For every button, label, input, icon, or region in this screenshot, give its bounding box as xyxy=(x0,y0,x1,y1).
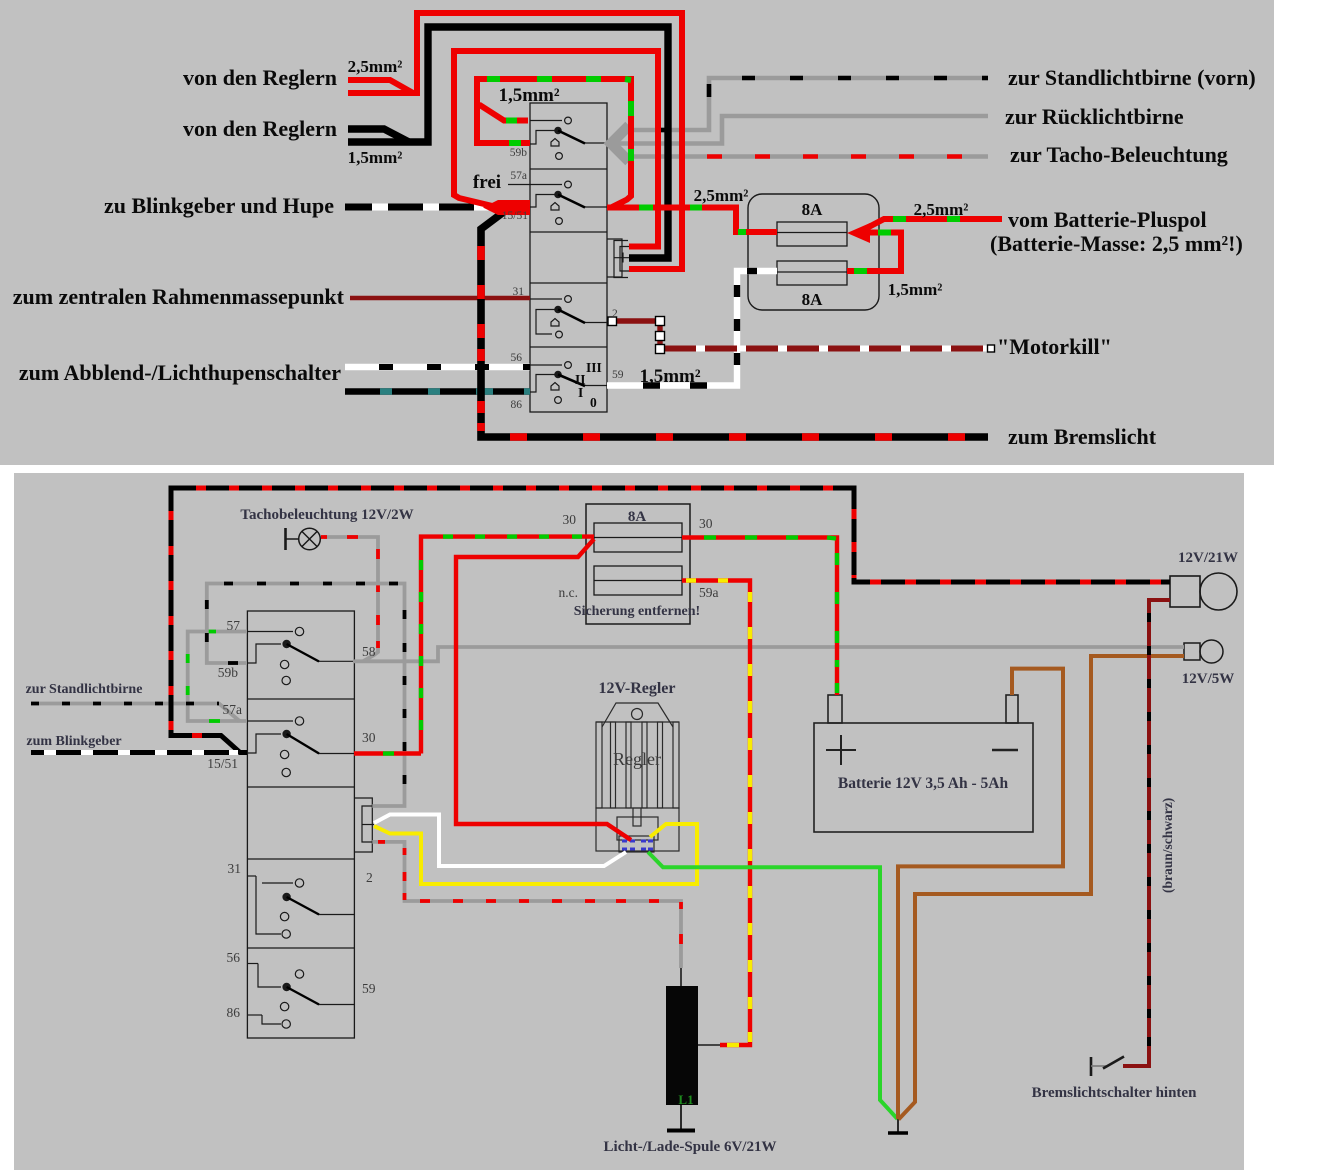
svg-text:86: 86 xyxy=(227,1005,241,1020)
wire red inner loop to connector X1 xyxy=(454,51,658,247)
svg-text:vom Batterie-Pluspol: vom Batterie-Pluspol xyxy=(1008,207,1207,232)
wire white connector X2 to regulator plug xyxy=(374,815,626,867)
terminal number labels S1 xyxy=(502,147,624,411)
wire red fuse F3 to regulator U1 xyxy=(456,539,631,840)
svg-text:Batterie 12V 3,5 Ah - 5Ah: Batterie 12V 3,5 Ah - 5Ah xyxy=(838,775,1009,792)
S1 row2 contacts (terminals 57a / 15-51 / 30) xyxy=(508,181,607,224)
wire gray/green 57 to 57a jumper xyxy=(188,632,247,722)
svg-text:30: 30 xyxy=(563,512,577,527)
fuse box F3/F4 (bottom panel) xyxy=(586,504,690,624)
wire red/yellow fuse F4 (59a) to coil L1 xyxy=(682,581,750,1046)
wire gray/red connector X2 to coil L1 xyxy=(372,842,681,968)
svg-text:zum zentralen Rahmenmassepunkt: zum zentralen Rahmenmassepunkt xyxy=(13,284,345,309)
S2 row1 contacts (57 / 59b / 58) xyxy=(248,627,354,684)
wire dark-red to zentraler Rahmenmassepunkt (terminal 31) xyxy=(350,296,530,301)
svg-text:III: III xyxy=(586,360,602,375)
wire red 2,5mm2 from Reglern xyxy=(348,80,413,93)
svg-text:2,5mm²: 2,5mm² xyxy=(348,57,403,76)
fuse F1 8A xyxy=(777,222,847,246)
svg-text:8A: 8A xyxy=(628,509,647,525)
svg-text:12V/21W: 12V/21W xyxy=(1178,550,1238,566)
S1 row1 contacts (terminals 57 / 59b / 58) xyxy=(530,117,607,159)
svg-text:zur Standlichtbirne (vorn): zur Standlichtbirne (vorn) xyxy=(1008,65,1256,90)
svg-text:von den Reglern: von den Reglern xyxy=(183,65,337,90)
S2 row5 contacts (56 / 86 / 59) xyxy=(248,964,354,1029)
svg-text:58: 58 xyxy=(362,644,376,659)
svg-text:8A: 8A xyxy=(802,290,824,309)
ground symbol under L1 xyxy=(680,1105,682,1130)
svg-text:56: 56 xyxy=(227,950,241,965)
wire gray/red tacho lamp to 58 xyxy=(324,537,378,661)
S2 row2 contacts (57a / 15-51 / 30) xyxy=(248,717,354,777)
wire gray to Standlichtbirne (terminal 58, black dashes) xyxy=(622,78,988,130)
wire red/green 30 riser to fuse F3 xyxy=(421,537,594,754)
svg-text:56: 56 xyxy=(511,352,523,364)
wire black 1,5mm2 from Reglern xyxy=(348,129,409,142)
svg-text:15/51: 15/51 xyxy=(207,756,238,771)
ignition switch S1 (top panel) body xyxy=(530,103,607,412)
svg-text:0: 0 xyxy=(590,395,597,410)
svg-text:1,5mm²: 1,5mm² xyxy=(888,280,943,299)
svg-text:31: 31 xyxy=(513,286,525,298)
coil L1 Licht-/Lade-Spule xyxy=(666,986,698,1105)
svg-text:zur Standlichtbirne: zur Standlichtbirne xyxy=(26,682,143,697)
svg-text:L1: L1 xyxy=(678,1092,693,1107)
svg-text:59a: 59a xyxy=(699,585,719,600)
fuse F2 8A xyxy=(777,261,847,285)
svg-text:(Batterie-Masse: 2,5 mm²!): (Batterie-Masse: 2,5 mm²!) xyxy=(990,231,1243,256)
svg-text:"Motorkill": "Motorkill" xyxy=(997,334,1112,359)
svg-text:57a: 57a xyxy=(223,702,243,717)
wire dark-red/white "Motorkill" xyxy=(664,346,987,352)
wire dark-red/black lamp E1 to Bremslichtschalter xyxy=(1123,600,1170,1066)
svg-text:12V-Regler: 12V-Regler xyxy=(599,680,676,697)
svg-text:zum Blinkgeber: zum Blinkgeber xyxy=(26,734,121,749)
svg-text:59: 59 xyxy=(612,369,624,381)
wire brown battery minus to ground xyxy=(898,669,1063,1119)
svg-text:8A: 8A xyxy=(802,200,824,219)
svg-text:2,5mm²: 2,5mm² xyxy=(914,200,969,219)
wire red/green fuse F3 to battery plus xyxy=(682,538,837,696)
wire gray/black zur Standlichtbirne xyxy=(31,704,240,722)
S1 row5 contacts (terminals 56 / 86 / 59) xyxy=(530,362,607,404)
svg-text:zum Abblend-/Lichthupenschalte: zum Abblend-/Lichthupenschalter xyxy=(19,360,341,385)
battery B1 xyxy=(814,695,1033,832)
wire gray 58 to lamp E2 12V/5W xyxy=(353,647,1184,661)
lamp E1 12V/21W xyxy=(1170,573,1237,610)
connector squares, terminal 2 to Motorkill wire xyxy=(616,318,656,323)
battery plus symbol xyxy=(826,735,856,765)
svg-text:15/51: 15/51 xyxy=(502,210,528,222)
svg-text:31: 31 xyxy=(228,861,242,876)
svg-text:zur Tacho-Beleuchtung: zur Tacho-Beleuchtung xyxy=(1010,142,1228,167)
svg-text:n.c.: n.c. xyxy=(559,585,579,600)
svg-text:zum Bremslicht: zum Bremslicht xyxy=(1008,424,1157,449)
svg-text:2,5mm²: 2,5mm² xyxy=(694,186,749,205)
fuse F4 (Sicherung entfernen) xyxy=(594,566,682,595)
svg-text:von den Reglern: von den Reglern xyxy=(183,116,337,141)
wire black/red to Bremslicht xyxy=(481,211,988,437)
svg-text:2: 2 xyxy=(612,308,618,320)
svg-text:Sicherung entfernen!: Sicherung entfernen! xyxy=(574,604,700,619)
svg-text:30: 30 xyxy=(362,730,376,745)
svg-text:1,5mm²: 1,5mm² xyxy=(498,85,559,106)
wire white/black 1,5mm2 F2 to terminal 59 xyxy=(607,271,777,386)
svg-text:zu Blinkgeber und Hupe: zu Blinkgeber und Hupe xyxy=(104,193,334,218)
wire red/green 2,5mm2 terminal 30 to fuse F1 xyxy=(607,208,777,233)
svg-text:I: I xyxy=(578,385,583,400)
svg-text:86: 86 xyxy=(511,399,523,411)
wire black/white zum Blinkgeber xyxy=(31,750,238,755)
wire gray to Ruecklichtbirne (terminal 58) xyxy=(612,116,988,144)
lamp E3 Tachobeleuchtung xyxy=(286,528,321,550)
terminal 58 arrow chevron xyxy=(611,126,629,162)
top panel labels xyxy=(13,65,1256,449)
svg-text:zur Rücklichtbirne: zur Rücklichtbirne xyxy=(1005,104,1184,129)
svg-text:57a: 57a xyxy=(510,170,527,182)
wire black/red border: left vertical + Blinkgeber join xyxy=(171,490,247,753)
svg-text:Bremslichtschalter hinten: Bremslichtschalter hinten xyxy=(1032,1085,1198,1101)
svg-text:1,5mm²: 1,5mm² xyxy=(639,366,700,387)
ignition switch S2 (bottom panel) body xyxy=(247,611,354,1038)
regulator U1 12V-Regler xyxy=(596,703,679,852)
bottom panel labels xyxy=(26,507,1238,1155)
svg-text:59b: 59b xyxy=(218,665,239,680)
ground symbol under battery/regler wires xyxy=(897,1118,899,1133)
fuse box F1/F2 (top panel) xyxy=(748,194,879,310)
svg-text:Regler: Regler xyxy=(613,749,661,769)
svg-text:frei: frei xyxy=(473,172,501,193)
wire black/teal to Abblend-/Lichthupenschalter (terminal 86) xyxy=(345,388,530,394)
wire brown lamp E2 to ground xyxy=(899,656,1185,1120)
wire red/green 30 stub xyxy=(354,751,421,755)
wire green regulator plug to ground xyxy=(648,852,898,1119)
junction node 15/51 (red) xyxy=(483,200,530,215)
wire gray/black 59b over switch to connector X2 xyxy=(207,584,405,807)
S2 row4 contacts (31 / 2) xyxy=(248,876,354,938)
wire black/red border: top run to lamp E1 xyxy=(171,488,1170,582)
wire red 2,5mm2 from Batterie-Pluspol into F1 (arrow) xyxy=(863,219,1002,230)
svg-text:Tachobeleuchtung 12V/2W: Tachobeleuchtung 12V/2W xyxy=(240,507,413,523)
svg-text:2: 2 xyxy=(366,870,373,885)
svg-text:59b: 59b xyxy=(510,147,528,159)
connector X1 at right of S1 row3 xyxy=(607,239,632,278)
battery minus symbol xyxy=(992,749,1018,751)
svg-text:57: 57 xyxy=(227,618,241,633)
switch S3 Bremslichtschalter hinten xyxy=(1091,1057,1124,1077)
regulator plug blue pins xyxy=(622,841,653,849)
svg-text:1,5mm²: 1,5mm² xyxy=(348,148,403,167)
wire red/green terminal 57 to 59b loop and terminal 30 xyxy=(479,105,528,121)
svg-text:Licht-/Lade-Spule 6V/21W: Licht-/Lade-Spule 6V/21W xyxy=(604,1139,777,1155)
wire white/black to Abblend-/Lichthupenschalter (terminal 56) xyxy=(345,364,530,370)
svg-text:59: 59 xyxy=(362,981,376,996)
svg-text:30: 30 xyxy=(699,516,713,531)
terminal number labels S2/fuses xyxy=(207,512,718,1020)
fuse F3 8A xyxy=(594,523,682,552)
wire yellow connector X2 to regulator plug xyxy=(374,824,697,884)
wire black/white to Blinkgeber und Hupe (terminal 15/51) xyxy=(345,204,500,211)
lamp E2 12V/5W xyxy=(1184,640,1223,663)
S1 row4 contacts (terminals 31 / 2) xyxy=(530,296,607,338)
svg-text:12V/5W: 12V/5W xyxy=(1182,671,1235,687)
connector X2 at right of S2 row3 xyxy=(354,798,374,852)
svg-text:(braun/schwarz): (braun/schwarz) xyxy=(1160,798,1175,893)
wire gray to Tacho-Beleuchtung (terminal 58, red dashes) xyxy=(620,154,988,159)
wire red 1,5mm2 F1 to F2 xyxy=(847,233,901,272)
